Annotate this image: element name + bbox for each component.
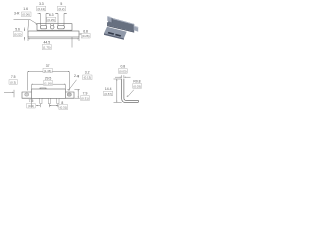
arrowheads fig4 — [120, 77, 122, 78]
svg-text:37: 37 — [46, 64, 50, 68]
svg-text:3.3: 3.3 — [39, 2, 44, 6]
svg-text:(0.2): (0.2) — [59, 7, 65, 11]
dim 7.5 left line — [4, 91, 14, 93]
bracket flange front edge — [104, 33, 124, 40]
3D bracket picture — [104, 16, 138, 40]
leader 3-R1.6 underline — [14, 19, 31, 21]
svg-text:(0.03): (0.03) — [119, 69, 127, 73]
top view: body — [37, 24, 72, 31]
top view: base plate — [28, 31, 79, 37]
leader R0.8 — [128, 90, 134, 97]
pin 1 — [40, 98, 42, 103]
labels fig1 — [13, 2, 90, 50]
mounting hole left — [25, 93, 29, 96]
dim 37 line — [28, 71, 70, 73]
dim 6.3 extension lines — [50, 24, 53, 26]
dim 6.8 extension line — [71, 37, 73, 47]
svg-text:(1.46): (1.46) — [44, 69, 52, 73]
svg-text:(0.31): (0.31) — [81, 97, 89, 101]
svg-text:(1.75): (1.75) — [43, 46, 51, 50]
svg-text:(1.16): (1.16) — [44, 81, 52, 85]
front view fig3 — [22, 88, 74, 104]
top view: center hole — [50, 25, 54, 29]
bracket right ear — [134, 25, 139, 31]
leader to body corner — [30, 20, 37, 24]
dim 7.5#2 tick — [39, 104, 41, 107]
svg-text:(0.57): (0.57) — [104, 92, 112, 96]
dim 14.4 line — [116, 79, 118, 102]
svg-text:(0.22): (0.22) — [14, 33, 22, 37]
leader to plate corner — [28, 20, 29, 31]
bracket flange top — [104, 27, 127, 38]
bracket left tab — [107, 16, 111, 22]
dim 14.4 top ext — [114, 78, 122, 80]
svg-text:6.3: 6.3 — [49, 13, 54, 17]
dim 0.8 arrow lines — [115, 76, 131, 78]
dim 7.5#2 ext — [31, 98, 33, 107]
dim 5 extension lines — [58, 14, 64, 26]
pin 3 — [57, 98, 59, 103]
pin profile — [122, 79, 139, 102]
dim 7.9 line — [77, 89, 79, 98]
svg-text:6.8: 6.8 — [83, 29, 88, 33]
arrowheads fig3 — [28, 71, 30, 72]
top view: right slot — [58, 25, 65, 29]
dim 3.3 arrows — [38, 13, 50, 15]
pin 2 — [48, 98, 50, 103]
bracket wall bottom shadow — [107, 25, 134, 32]
svg-text:(0.25): (0.25) — [47, 18, 55, 22]
dim 8 line — [49, 105, 58, 107]
top view: left slot — [41, 25, 47, 29]
svg-text:14.4: 14.4 — [105, 87, 112, 91]
svg-text:0.8: 0.8 — [120, 64, 125, 68]
svg-text:(0.06): (0.06) — [22, 13, 30, 17]
svg-text:7.9: 7.9 — [83, 92, 88, 96]
dimension lines fig1 — [14, 14, 82, 48]
leader 2-phi3.2 — [68, 80, 76, 91]
svg-text:7.5: 7.5 — [11, 75, 16, 79]
bracket wall top edge highlight — [112, 18, 134, 25]
dim 29.5 line — [32, 83, 66, 85]
dim 37 ext lines — [28, 72, 70, 91]
svg-text:8: 8 — [61, 101, 63, 105]
SSR body front — [32, 89, 66, 98]
dim 5.6 line — [24, 28, 26, 41]
dim 0.8 ticks — [122, 75, 124, 78]
svg-text:(0.03): (0.03) — [133, 84, 141, 88]
svg-text:(0.3): (0.3) — [28, 104, 34, 108]
svg-text:3-R: 3-R — [14, 12, 20, 16]
svg-text:7.5: 7.5 — [29, 99, 34, 103]
svg-text:3.2: 3.2 — [85, 70, 90, 74]
dim 14.4 bottom ext — [114, 101, 122, 103]
dim 7.9 ext lines — [74, 89, 79, 98]
svg-text:(0.31): (0.31) — [60, 106, 68, 110]
dim 6.8 leader stub — [79, 33, 81, 35]
mounting hole right — [67, 93, 71, 96]
dim 8 ticks — [49, 104, 58, 107]
svg-text:5: 5 — [60, 2, 62, 6]
body top bump — [40, 88, 46, 89]
bracket wall — [107, 18, 134, 32]
dim 44.5 line — [28, 38, 79, 40]
dim 44.5 end ticks — [28, 37, 79, 41]
svg-text:5.6: 5.6 — [15, 27, 20, 31]
pin detail fig4 — [122, 79, 139, 102]
svg-text:29.5: 29.5 — [45, 76, 52, 80]
dim 7.5#2 line — [36, 105, 40, 107]
bracket flange slot 1 — [108, 32, 115, 35]
svg-text:2-φ: 2-φ — [74, 74, 80, 78]
svg-text:(0.13): (0.13) — [38, 7, 46, 11]
dim 3.3 extension lines — [41, 14, 47, 26]
svg-text:(0.26): (0.26) — [82, 34, 90, 38]
arrowheads fig1 — [39, 13, 41, 14]
bracket flange slot 2 — [115, 34, 121, 37]
dim 5 arrows — [55, 13, 67, 15]
svg-text:1.6: 1.6 — [23, 7, 28, 11]
svg-text:R0.8: R0.8 — [133, 79, 140, 83]
dim 7.5 left tick — [13, 90, 15, 98]
bracket bar front view — [22, 92, 74, 98]
svg-text:44.5: 44.5 — [43, 41, 50, 45]
dim 29.5 ext lines — [32, 85, 66, 89]
svg-text:(0.13): (0.13) — [84, 76, 92, 80]
svg-text:(0.3): (0.3) — [10, 80, 16, 84]
